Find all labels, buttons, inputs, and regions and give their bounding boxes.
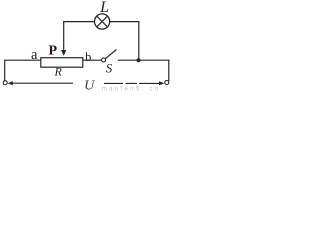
wire right side vertical down <box>168 60 170 81</box>
svg-text:manfen5. co: manfen5. co <box>102 87 160 93</box>
label R <box>54 65 63 79</box>
svg-text:R: R <box>54 65 63 79</box>
slider P arrow <box>61 50 66 55</box>
label P <box>49 43 58 58</box>
watermark <box>102 87 160 93</box>
svg-text:U: U <box>84 79 95 93</box>
wire switch to right corner <box>118 59 170 61</box>
label U <box>84 79 95 94</box>
svg-text:a: a <box>31 47 38 63</box>
wire a-terminal horizontal <box>5 59 41 61</box>
switch S blade <box>106 50 117 59</box>
label L <box>99 0 109 16</box>
svg-text:P: P <box>49 43 58 58</box>
U dashed line right <box>104 82 137 84</box>
svg-text:S: S <box>106 60 113 75</box>
switch S pivot <box>102 58 106 62</box>
terminal right <box>165 81 169 85</box>
wire b to switch pivot <box>83 59 102 61</box>
wire top horizontal right (lamp right lead) <box>110 21 139 23</box>
wire top horizontal left (lamp left lead) <box>63 21 94 23</box>
svg-text:b: b <box>85 50 91 64</box>
junction dot <box>137 58 141 62</box>
svg-text:L: L <box>99 0 109 16</box>
wire slider arm vertical <box>63 21 65 51</box>
resistor R (rheostat body) <box>41 58 83 67</box>
wire right vertical (lamp to junction) <box>138 21 140 60</box>
terminal left <box>3 81 7 85</box>
label b <box>85 50 91 64</box>
lamp U1 (bulb L) <box>95 14 110 29</box>
label S <box>106 60 113 75</box>
U arrow right <box>139 81 164 85</box>
U arrow left <box>7 81 73 85</box>
label a <box>31 47 38 63</box>
wire left side vertical down <box>4 60 6 81</box>
